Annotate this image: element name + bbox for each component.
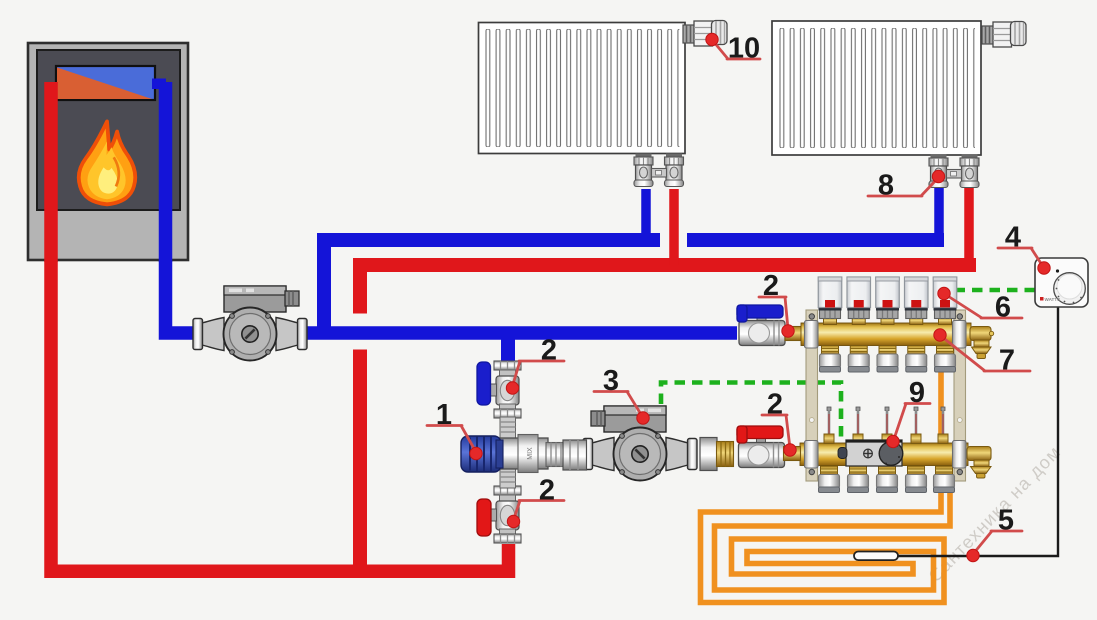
room thermostat 4 bbox=[1035, 258, 1088, 307]
return port 1 bbox=[819, 466, 840, 493]
callout line 4 bbox=[998, 248, 1043, 267]
boiler body bbox=[28, 43, 188, 260]
return valve pin 5 bbox=[938, 407, 948, 444]
return port 5 bbox=[934, 466, 955, 493]
svg-text:MIX: MIX bbox=[527, 447, 534, 460]
floor temperature sensor capsule bbox=[854, 552, 898, 561]
return valve pin 1 bbox=[824, 407, 834, 444]
callout line 6 bbox=[946, 295, 1023, 319]
svg-text:1: 1 bbox=[436, 399, 452, 431]
callout dot 2 bottom valve bbox=[507, 515, 519, 527]
callout line 1 bbox=[427, 426, 476, 453]
callout dot 2 blue valve bbox=[782, 325, 794, 337]
wire red supply: boiler down, bottom run, stub up to valve 2 bbox=[51, 82, 509, 571]
supply bar end plug and drain bbox=[970, 327, 994, 359]
wire control cable thermostat to flow meter (green dashed) bbox=[955, 288, 1036, 293]
svg-text:WATTS: WATTS bbox=[1045, 297, 1061, 302]
callout line 5 bbox=[974, 531, 1023, 554]
flow meter 5 bbox=[933, 277, 957, 325]
callout dot 4 bbox=[1038, 262, 1050, 274]
supply port 3 bbox=[877, 346, 898, 373]
svg-text:7: 7 bbox=[999, 345, 1015, 377]
callout line 3 bbox=[594, 392, 642, 417]
svg-text:2: 2 bbox=[763, 270, 779, 302]
ball valve manifold supply (blue handle) bbox=[737, 305, 785, 346]
union fitting pump-valve (with brass thread) bbox=[700, 438, 734, 471]
wire red radiator2 drop bbox=[964, 186, 974, 258]
wire floor-heating loop (orange serpentine + risers) bbox=[701, 368, 951, 603]
actuator 9 on return bar bbox=[838, 440, 903, 466]
manifold supply bar (7) bbox=[801, 323, 971, 346]
radiator 2 supply valve bbox=[960, 155, 979, 188]
wire red top manifold line bbox=[353, 258, 976, 272]
wire red mid riser (upper seg) bbox=[353, 259, 367, 314]
supply port 1 bbox=[820, 346, 841, 373]
svg-text:2: 2 bbox=[767, 389, 783, 421]
callout line 2 red valve bbox=[762, 415, 790, 448]
return valve pin 4 bbox=[911, 407, 921, 444]
wire blue boiler return through pump to manifold valve bbox=[166, 82, 738, 333]
flame bbox=[79, 121, 136, 204]
radiator 2 valve bridge bbox=[947, 170, 962, 179]
radiator 1 supply valve bbox=[665, 154, 684, 187]
valve 2 bottom (red handle) bbox=[490, 486, 522, 543]
callout dot 5 bbox=[967, 549, 979, 561]
return valve pin 2 bbox=[853, 407, 863, 444]
union fitting mix-pump bbox=[563, 440, 587, 470]
callout dot 7 bbox=[934, 329, 946, 341]
callout dot 8 bbox=[932, 170, 944, 182]
wire red mid riser (lower seg) bbox=[353, 350, 367, 571]
return port 3 bbox=[877, 466, 898, 493]
callout line 7 bbox=[942, 337, 1031, 372]
callout dot 1 bbox=[470, 447, 482, 459]
radiator 2 return valve bbox=[929, 155, 948, 188]
svg-text:3: 3 bbox=[603, 365, 619, 397]
ball valve floor loop (red handle) bbox=[737, 426, 785, 468]
radiator 1 panel bbox=[479, 23, 686, 154]
return port 4 bbox=[906, 466, 927, 493]
return port 2 bbox=[848, 466, 869, 493]
manifold return chrome collars bbox=[805, 441, 819, 469]
callout dot 10 bbox=[706, 33, 718, 45]
mounting rail left bbox=[806, 310, 818, 481]
callout line 10 bbox=[714, 42, 761, 60]
radiator 2 thermostatic head bbox=[982, 22, 1026, 48]
wire blue riser to radiator return line bbox=[324, 240, 660, 334]
wire blue radiator return line right segment bbox=[687, 233, 944, 247]
mixing valve 1 bbox=[461, 417, 565, 488]
flow meter 2 bbox=[847, 277, 871, 325]
brass nipple to return manifold bbox=[784, 447, 801, 461]
wire blue radiator1 drop bbox=[641, 189, 651, 239]
svg-text:10: 10 bbox=[728, 33, 760, 65]
wire control cable pump to actuator (green dashed) bbox=[661, 383, 841, 447]
wire blue pipe over boiler bbox=[159, 82, 173, 262]
mounting rail right bbox=[954, 310, 966, 481]
manifold supply chrome collars bbox=[805, 321, 819, 349]
svg-text:2: 2 bbox=[541, 335, 557, 367]
callout dot 6 bbox=[938, 287, 950, 299]
svg-text:2: 2 bbox=[539, 475, 555, 507]
radiator 2 panel bbox=[772, 21, 981, 155]
svg-text:9: 9 bbox=[909, 377, 925, 409]
callout dot 2 top valve bbox=[506, 382, 518, 394]
svg-text:6: 6 bbox=[995, 292, 1011, 324]
pump 3 (floor loop) bbox=[583, 406, 697, 481]
callout line 9 bbox=[894, 404, 930, 440]
wire thermostat to floor sensor (black) bbox=[898, 306, 1058, 556]
manifold return bar (9) bbox=[800, 443, 968, 466]
supply port 2 bbox=[848, 346, 869, 373]
callout line 8 bbox=[868, 178, 938, 196]
brass nipple to upper manifold bbox=[785, 327, 806, 341]
callout dot 3 bbox=[637, 412, 649, 424]
return bar end plug and drain bbox=[967, 447, 991, 479]
flow meter 3 bbox=[876, 277, 900, 325]
callout line 2 bottom valve bbox=[514, 501, 565, 521]
wire blue stub to valve 2 top bbox=[501, 333, 515, 363]
flow meter 4 bbox=[905, 277, 929, 325]
boiler heat exchanger bbox=[56, 66, 155, 100]
wire red radiator1 drop bbox=[669, 189, 679, 265]
valve 2 top (blue handle) bbox=[490, 361, 522, 418]
pump circulation (boiler loop) bbox=[193, 286, 307, 361]
supply port 5 bbox=[935, 346, 956, 373]
callout line 2 blue valve bbox=[759, 297, 788, 329]
return valve pin 3 bbox=[882, 407, 892, 444]
svg-text:4: 4 bbox=[1005, 222, 1021, 254]
radiator 1 thermostatic head bbox=[683, 21, 727, 47]
svg-text:5: 5 bbox=[998, 505, 1014, 537]
callout dot 2 red valve bbox=[784, 444, 796, 456]
svg-text:8: 8 bbox=[878, 170, 894, 202]
callout line 2 top valve bbox=[513, 361, 565, 386]
callout dot 9 bbox=[887, 435, 899, 447]
radiator 1 return valve bbox=[634, 154, 653, 187]
wire red pipe over boiler bbox=[44, 82, 58, 262]
flow meter 1 bbox=[818, 277, 842, 325]
supply port 4 bbox=[906, 346, 927, 373]
radiator 1 valve bridge bbox=[652, 169, 667, 178]
